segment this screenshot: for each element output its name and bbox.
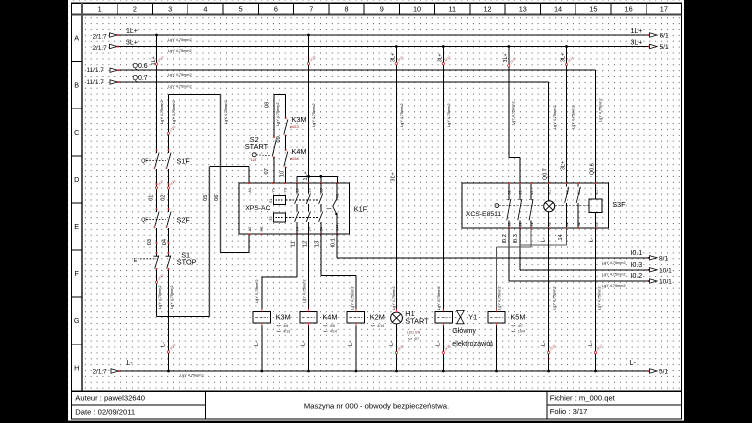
lamp X1-X2 — [548, 183, 550, 201]
outer frame border — [72, 3, 682, 419]
folio arrow 10/1 (I0.2) — [648, 280, 650, 282]
svg-text:09: 09 — [276, 136, 282, 142]
svg-text:I0.2: I0.2 — [631, 273, 643, 280]
link wire 13/33/Y43 — [297, 175, 338, 177]
junction at pin 23 riser — [307, 175, 310, 178]
svg-text:S1: S1 — [577, 190, 581, 195]
svg-text:13: 13 — [519, 4, 527, 13]
svg-text:7: 7 — [309, 4, 313, 13]
svg-text:LgY 4,75mm2: LgY 4,75mm2 — [598, 98, 602, 122]
XCS/S3F pin X1 — [548, 182, 550, 184]
svg-text:PE: PE — [260, 226, 264, 232]
wire Q0.6 drop to E1 — [595, 70, 597, 183]
row tick F — [72, 249, 83, 251]
wire 3L+ drop to XCS (jog to pin 21) — [508, 47, 510, 158]
svg-text:Q0.7: Q0.7 — [542, 168, 548, 180]
svg-text:K1F: K1F — [354, 205, 368, 214]
svg-text:LgY 4,75mm2: LgY 4,75mm2 — [553, 105, 557, 129]
row tick E — [72, 202, 83, 204]
svg-text:LgY 4,75mm2: LgY 4,75mm2 — [552, 286, 556, 310]
XCS/S3F pin 12 — [530, 227, 532, 229]
XCS/S3F pin 31 — [508, 182, 510, 184]
XCS/S3F pin 11 — [530, 182, 532, 184]
svg-text:E: E — [134, 258, 138, 264]
column separator 1/2 — [116, 3, 118, 14]
svg-text:14: 14 — [554, 4, 562, 13]
wire X2 to L- — [548, 228, 550, 371]
wire 05 horizontal to A1 — [209, 166, 249, 168]
svg-text:11: 11 — [448, 4, 456, 13]
svg-text:07: 07 — [264, 168, 270, 174]
svg-text:16: 16 — [625, 4, 633, 13]
row tick D — [72, 155, 83, 157]
wire 10 K4M to Y2 — [285, 168, 287, 184]
svg-text:L-: L- — [436, 341, 442, 346]
column separator 2/3 — [152, 3, 154, 14]
svg-text:Q0.6: Q0.6 — [133, 63, 148, 70]
XPS pin 23 — [308, 182, 310, 184]
svg-text:Q0.7: Q0.7 — [133, 75, 148, 82]
XCS/S3F pin 32 — [508, 227, 510, 229]
wire 3L+ bus — [118, 46, 650, 48]
svg-text:1: 1 — [98, 4, 102, 13]
svg-text:LgY 4,75mm2: LgY 4,75mm2 — [168, 38, 192, 42]
wire 11: pin 14 to K3M coil — [296, 234, 298, 277]
svg-text:S3F: S3F — [612, 200, 626, 209]
emergency stop button S1 — [156, 253, 158, 256]
XCS/S3F pin 22 — [519, 227, 521, 229]
S2 upper wire 08 — [273, 94, 275, 137]
svg-text:4/7: 4/7 — [518, 324, 523, 328]
wire 3L+ drop to H1 — [395, 47, 397, 313]
svg-text:3L+: 3L+ — [560, 53, 566, 62]
svg-text:LgY 4,75mm2: LgY 4,75mm2 — [511, 101, 515, 125]
svg-text:4/14: 4/14 — [330, 329, 337, 333]
wire 06 upper: S1F right pole to loop — [168, 94, 170, 150]
junction 1L+/S1F — [155, 34, 158, 37]
svg-text:31: 31 — [508, 190, 512, 194]
svg-text:LgY 4,75mm2: LgY 4,75mm2 — [400, 103, 404, 127]
svg-text:24: 24 — [307, 227, 311, 231]
pin 33 stub — [320, 176, 322, 183]
svg-text:LgY 4,75mm2: LgY 4,75mm2 — [392, 286, 396, 310]
svg-text:Y2: Y2 — [284, 188, 288, 193]
svg-text:START: START — [245, 142, 269, 151]
folio arrow 5/1 (3L+) — [648, 46, 650, 48]
folio arrow 8/1 (I0.1) — [648, 257, 650, 259]
terminal 3L+ drop H1 — [395, 62, 397, 64]
junction S1/L- — [167, 370, 170, 373]
terminal 3L+ drop S3F — [565, 63, 567, 65]
coil feed wires to L- — [261, 326, 263, 371]
svg-text:17: 17 — [660, 4, 668, 13]
wire 06 vertical — [220, 94, 222, 252]
wire Q0.6 — [118, 69, 596, 71]
XPS pin 14 — [296, 233, 298, 235]
svg-text:43: 43 — [565, 190, 569, 194]
svg-text:Folio : 3/17: Folio : 3/17 — [550, 407, 588, 416]
svg-text:21: 21 — [519, 190, 523, 194]
pin Y43 stub — [336, 176, 338, 183]
svg-text:1L+: 1L+ — [151, 56, 157, 65]
folio arrow 2/1.7 (L-) — [111, 369, 119, 373]
wire I0.3: pin 22 to folio 10/1 — [519, 228, 521, 270]
svg-text:L-: L- — [589, 237, 595, 242]
XPS pin Y43 — [336, 182, 338, 184]
svg-text:10/1: 10/1 — [659, 279, 672, 286]
svg-text:E1: E1 — [269, 199, 273, 203]
folio arrow 11/1.7 (Q0.7) — [110, 80, 118, 84]
terminal below S1 left — [155, 281, 157, 283]
svg-text:5: 5 — [239, 4, 243, 13]
svg-text:10: 10 — [279, 171, 285, 177]
XCS/S3F pin S2 — [577, 227, 579, 229]
svg-text:Y1: Y1 — [272, 188, 276, 193]
actuator dashed link — [499, 205, 589, 207]
NO contact K3M — [284, 120, 288, 135]
XCS/S3F pin X2 — [548, 227, 550, 229]
svg-text:L-: L- — [301, 341, 307, 346]
wire 13: pin 34 to K2M coil — [320, 234, 322, 276]
column separator 13/14 — [539, 3, 541, 14]
contactor coil K5M — [488, 311, 505, 323]
pushbutton S2 START — [272, 140, 276, 157]
wire L- bus — [120, 370, 650, 372]
XPS pin 34 — [320, 233, 322, 235]
svg-text:3L+: 3L+ — [126, 40, 138, 47]
svg-text:LgY 4,75mm2: LgY 4,75mm2 — [168, 85, 192, 89]
svg-text:33: 33 — [320, 188, 324, 192]
S1 left pole down to 05 — [156, 269, 158, 317]
svg-text:B: B — [74, 81, 79, 90]
column separator 3/4 — [187, 3, 189, 14]
svg-text:8/1: 8/1 — [659, 256, 668, 263]
XCS/S3F pin 43 — [566, 182, 568, 184]
svg-text:12: 12 — [483, 4, 491, 13]
svg-text:8: 8 — [344, 4, 348, 13]
S3F solenoid E1-E2 — [595, 183, 597, 199]
pin 13 stub — [296, 176, 298, 183]
folio arrow 2/1.7 (1L+) — [110, 33, 118, 37]
svg-text:A1: A1 — [248, 188, 252, 193]
svg-text:G: G — [74, 316, 80, 325]
parallel bridge wire 08 — [274, 93, 286, 95]
XPS pin A1 — [248, 182, 250, 184]
svg-text:A2: A2 — [248, 227, 252, 232]
wire 05 bottom jog — [157, 316, 210, 318]
svg-text:X1: X1 — [547, 190, 551, 195]
wire Q0.7 — [118, 81, 549, 83]
svg-text:3: 3 — [168, 4, 172, 13]
svg-text:Fichier : m_000.qet: Fichier : m_000.qet — [550, 393, 616, 402]
svg-text:S2F: S2F — [177, 216, 191, 225]
svg-text:12: 12 — [302, 241, 308, 247]
wire 12: pin 24 to K4M coil — [308, 234, 310, 309]
svg-text:I0.3: I0.3 — [513, 234, 519, 243]
svg-text:L-: L- — [489, 341, 495, 346]
svg-text:L-: L- — [630, 360, 637, 367]
H1 wire to L- — [396, 324, 398, 371]
terminal above L- E2 — [594, 351, 596, 353]
folio arrow 11/1.7 (Q0.6) — [110, 68, 118, 72]
svg-text:K2M: K2M — [370, 313, 385, 322]
terminal above L- Y1 — [442, 352, 444, 354]
K3M branch upper — [285, 94, 287, 118]
column separator 8/9 — [363, 3, 365, 14]
svg-text:LgY 4,75mm2: LgY 4,75mm2 — [497, 286, 501, 310]
svg-text:A: A — [74, 34, 79, 43]
svg-text:34: 34 — [320, 227, 324, 231]
svg-text:3L+: 3L+ — [503, 53, 509, 62]
svg-text:LgY 4,75mm2: LgY 4,75mm2 — [158, 285, 162, 309]
svg-text:44: 44 — [565, 222, 569, 226]
svg-text:114: 114 — [251, 158, 257, 162]
svg-text:START: START — [405, 317, 429, 326]
XPS pin 24 — [308, 233, 310, 235]
svg-text:K3M: K3M — [292, 115, 307, 124]
svg-text:3L+: 3L+ — [560, 161, 566, 170]
safety switch XCS-E8511 / S3F body — [462, 183, 609, 228]
svg-text:1L+: 1L+ — [126, 28, 138, 35]
XCS actuator — [495, 204, 499, 208]
svg-text:XCS-E8511: XCS-E8511 — [466, 211, 502, 218]
valve symbol — [457, 310, 465, 317]
svg-text:K4M: K4M — [322, 313, 337, 322]
XCS/S3F pin 44 — [566, 227, 568, 229]
XPS pin PE — [260, 233, 262, 235]
wire I0.1: Y44 to folio 8/1 — [336, 234, 338, 258]
svg-text:K4M: K4M — [292, 147, 307, 156]
svg-text:03: 03 — [147, 239, 153, 245]
row tick B — [72, 61, 83, 63]
svg-text:E2: E2 — [269, 216, 273, 220]
svg-text:LgY 4,75mm2: LgY 4,75mm2 — [350, 286, 354, 310]
svg-text:4: 4 — [203, 4, 207, 13]
safety relay module XPS-AC U1 — [239, 183, 350, 234]
row tick H — [72, 343, 83, 345]
svg-text:LgY 4,75mm2: LgY 4,75mm2 — [255, 279, 259, 303]
wire 1L+ drop to S1F — [156, 35, 158, 150]
wire 06 to A2 jog — [221, 252, 250, 254]
wire 3L+ drop to Y1 — [442, 47, 444, 312]
svg-text:Auteur : pawel32640: Auteur : pawel32640 — [75, 394, 145, 403]
svg-text:3L+: 3L+ — [631, 40, 643, 47]
svg-text:S2: S2 — [577, 222, 581, 227]
svg-text:L-: L- — [254, 341, 260, 346]
svg-text:I0.1: I0.1 — [631, 250, 643, 257]
XPS Y43-Y44 loop contact — [336, 183, 338, 198]
wire 06 top jog — [169, 93, 221, 95]
svg-text:Maszyna nr 000 - obwody bezpie: Maszyna nr 000 - obwody bezpieczeństwa. — [304, 401, 449, 410]
svg-text:15: 15 — [589, 4, 597, 13]
wire I0.2: pin 32 to folio 10/1 — [508, 228, 510, 281]
svg-text:elektrozawór: elektrozawór — [452, 340, 493, 348]
svg-text:LgY 4,75mm2: LgY 4,75mm2 — [168, 73, 192, 77]
terminal above L- X2 — [547, 351, 549, 353]
svg-text:E2: E2 — [594, 222, 598, 227]
title block — [72, 390, 682, 392]
column separator 14/15 — [575, 3, 577, 14]
contactor coil K4M — [300, 311, 317, 323]
A2 pin stub — [248, 234, 250, 252]
svg-text:11: 11 — [291, 241, 297, 247]
S3F NO contacts — [566, 183, 568, 186]
svg-text:4/7: 4/7 — [414, 337, 419, 341]
svg-text:L-: L- — [541, 341, 547, 346]
terminal 3L+ drop XCS — [508, 64, 510, 66]
svg-text:04: 04 — [162, 239, 168, 245]
wire 1L+ drop to XPS pin 23 — [308, 35, 310, 183]
svg-text:06: 06 — [214, 195, 220, 201]
solenoid valve coil Y1 — [435, 311, 452, 323]
svg-text:2/1.7: 2/1.7 — [93, 45, 108, 52]
svg-text:02: 02 — [160, 195, 166, 201]
terminal 3L+ drop Y1 — [442, 62, 444, 64]
svg-text:12: 12 — [530, 222, 534, 226]
svg-text:4/14: 4/14 — [377, 324, 384, 328]
column separator 9/10 — [398, 3, 400, 14]
svg-text:LgY 4,75mm2: LgY 4,75mm2 — [160, 100, 164, 124]
svg-text:22: 22 — [519, 222, 523, 226]
svg-text:3L+: 3L+ — [437, 53, 443, 62]
folio arrow 5/1 (L-) — [648, 370, 650, 372]
svg-text:10: 10 — [413, 4, 421, 13]
terminal on 1L+ drop 2 — [307, 62, 309, 64]
svg-text:11/1.7: 11/1.7 — [87, 79, 105, 86]
svg-text:Y1: Y1 — [468, 312, 477, 321]
svg-text:11: 11 — [530, 191, 534, 195]
column separator 4/5 — [222, 3, 224, 14]
column separator 7/8 — [328, 3, 330, 14]
svg-text:Y44: Y44 — [336, 225, 340, 232]
svg-text:LgY 4,75mm2: LgY 4,75mm2 — [168, 49, 192, 53]
svg-text:Q0.6: Q0.6 — [589, 163, 595, 175]
column separator 15/16 — [610, 3, 612, 14]
svg-text:2/1.7: 2/1.7 — [93, 33, 108, 40]
svg-text:2/1.7: 2/1.7 — [93, 369, 108, 376]
svg-text:LgY 4,75mm2: LgY 4,75mm2 — [571, 105, 575, 129]
XCS NC contacts — [508, 183, 510, 199]
svg-text:I0.3: I0.3 — [631, 262, 643, 269]
svg-text:K5M: K5M — [510, 313, 525, 322]
svg-text:32: 32 — [508, 222, 512, 226]
svg-text:L-: L- — [588, 341, 594, 346]
svg-text:LgY 4,75mm2: LgY 4,75mm2 — [312, 103, 316, 127]
terminal above L- — [167, 351, 169, 353]
svg-text:13: 13 — [296, 188, 300, 192]
column separator 10/11 — [434, 3, 436, 14]
svg-text:S1F: S1F — [177, 157, 191, 166]
svg-text:QF: QF — [141, 158, 148, 164]
terminal on wire 06 — [167, 132, 169, 134]
contactor coil K2M — [347, 311, 364, 323]
column header bottom rule — [72, 14, 682, 16]
terminal on 1L+ drop — [155, 63, 157, 65]
svg-text:I0.2: I0.2 — [502, 234, 508, 243]
column separator 6/7 — [293, 3, 295, 14]
svg-text:XPS-AC: XPS-AC — [245, 205, 270, 212]
svg-text:6: 6 — [274, 4, 278, 13]
XCS/S3F pin E2 — [595, 227, 597, 229]
XPS pin Y2 — [284, 182, 286, 184]
svg-text:1L+: 1L+ — [631, 28, 643, 35]
svg-text:10/4: 10/4 — [518, 329, 525, 333]
svg-text:13: 13 — [315, 241, 321, 247]
XCS/S3F pin S1 — [577, 182, 579, 184]
indicator lamp H1 — [391, 312, 403, 324]
svg-text:LgY 4,75mm2: LgY 4,75mm2 — [447, 103, 451, 127]
circuit breaker S2F — [156, 209, 158, 212]
wire E2 to L- — [595, 228, 597, 371]
svg-text:L-: L- — [540, 237, 546, 242]
svg-text:LgY 4,75mm2: LgY 4,75mm2 — [602, 284, 626, 288]
svg-text:ø4/13: ø4/13 — [290, 125, 299, 129]
S1 right pole down to L- — [168, 269, 170, 371]
svg-text:LgY 4,75mm2: LgY 4,75mm2 — [602, 261, 626, 265]
svg-text:E1: E1 — [594, 190, 598, 195]
svg-text:X2: X2 — [547, 222, 551, 227]
svg-text:L-: L- — [389, 341, 395, 346]
NO contact K4M — [284, 152, 288, 167]
wire 14 jog from pin 44 — [566, 228, 568, 245]
svg-text:ø4/14: ø4/14 — [290, 157, 299, 161]
svg-text:K3M: K3M — [276, 313, 291, 322]
XPS internal coil K1 — [273, 196, 285, 205]
column separator 11/12 — [469, 3, 471, 14]
XCS/S3F pin 21 — [519, 182, 521, 184]
svg-text:L-: L- — [127, 360, 134, 367]
svg-text:LgY 4,75mm2: LgY 4,75mm2 — [172, 100, 176, 124]
XPS pin Y44 — [336, 233, 338, 235]
svg-text:10/1: 10/1 — [659, 268, 672, 275]
svg-text:LED GN: LED GN — [407, 331, 421, 335]
circuit breaker S1F — [156, 150, 158, 153]
folio arrow 10/1 (I0.3) — [648, 269, 650, 271]
svg-text:6/1: 6/1 — [660, 33, 669, 40]
contactor coil K3M — [253, 311, 270, 323]
row tick G — [72, 296, 83, 298]
svg-text:9: 9 — [380, 4, 384, 13]
svg-text:I0.1: I0.1 — [331, 238, 337, 247]
svg-text:4/13: 4/13 — [283, 329, 290, 333]
svg-text:QF: QF — [141, 217, 148, 223]
junction at pin 33 riser — [319, 175, 322, 178]
svg-text:H: H — [74, 363, 79, 372]
folio arrow 2/1.7 (3L+) — [110, 44, 118, 48]
svg-text:LgY 4,75mm2: LgY 4,75mm2 — [276, 102, 280, 126]
wire 3L+ drop to S3F pin 43 — [566, 47, 568, 184]
svg-text:3L+: 3L+ — [391, 172, 397, 181]
svg-text:4/6: 4/6 — [330, 324, 335, 328]
svg-text:Date : 02/09/2011: Date : 02/09/2011 — [75, 408, 135, 417]
column separator 16/17 — [645, 3, 647, 14]
wire 1L+ bus — [118, 34, 650, 36]
column separator 5/6 — [257, 3, 259, 14]
svg-text:14: 14 — [296, 227, 300, 231]
svg-text:05: 05 — [203, 195, 209, 201]
svg-text:Główny: Główny — [452, 327, 476, 335]
svg-text:E: E — [74, 222, 79, 231]
wire Q0.7 drop to X1 — [548, 82, 550, 183]
junction 1L+ bus — [307, 34, 310, 37]
row label column separator — [81, 3, 83, 391]
wire 07 S2 to Y1 — [273, 158, 275, 184]
XPS pin Y1 — [272, 182, 274, 184]
svg-text:LgY 4,75mm2: LgY 4,75mm2 — [437, 286, 441, 310]
S2F-S1 link wires — [156, 243, 158, 253]
wire 09 between K3M and K4M — [285, 136, 287, 151]
XPS internal coil K2 — [273, 213, 285, 222]
